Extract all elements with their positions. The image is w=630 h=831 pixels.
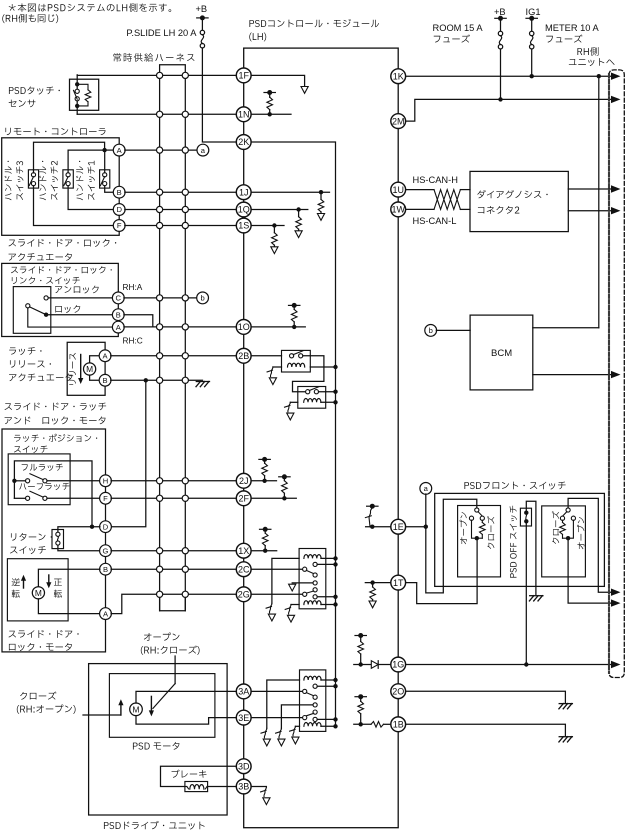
svg-text:IG1: IG1 (526, 7, 541, 17)
wire half latch to F (47, 497, 100, 499)
ground latch release (196, 381, 209, 383)
terminal A latch release (99, 350, 111, 362)
wire brake to 3B (208, 786, 237, 788)
wire B to ground (111, 379, 203, 381)
label slide door latch and lock motor (5, 403, 107, 411)
wire 1T stub (365, 582, 391, 584)
svg-text:1O: 1O (238, 322, 250, 332)
motor M PSD (130, 703, 143, 716)
RH switch contacts (560, 516, 564, 520)
harness bracket top (160, 65, 186, 76)
label slide door lock actuator (9, 239, 117, 247)
wire A to 1O (124, 326, 236, 328)
wire IG1 down to 1K wire (531, 49, 533, 76)
LH front switch box (458, 506, 501, 577)
terminal A remote (113, 144, 125, 156)
svg-text:2C: 2C (238, 564, 250, 574)
svg-text:2G: 2G (238, 590, 250, 600)
wire BCM upper output (533, 327, 599, 329)
sensor riser bottom (76, 106, 78, 114)
wire 1X internal (251, 550, 277, 552)
svg-text:M: M (132, 705, 139, 715)
svg-text:2J: 2J (239, 476, 249, 486)
terminal B link switch (112, 309, 124, 321)
label close (20, 692, 56, 700)
terminal D latch (100, 521, 112, 533)
motor M lock (32, 587, 44, 599)
wire M to 3E (136, 716, 236, 725)
label forward (54, 579, 62, 586)
wire 1B stub with resistor (354, 723, 371, 725)
svg-text:HS-CAN-L: HS-CAN-L (413, 216, 457, 226)
terminal F latch (100, 492, 112, 504)
svg-text:1K: 1K (393, 71, 404, 81)
RH switch junction dot (566, 536, 570, 540)
terminal A link switch (112, 321, 124, 333)
pull-down at 1J (319, 190, 323, 194)
svg-text:G: G (103, 546, 109, 555)
pull-down at 1Q (296, 207, 300, 211)
relay middle contact 3A group (313, 703, 317, 707)
coil lower right lead to rail 3E (321, 725, 336, 727)
relay coil upper 3A (304, 676, 321, 680)
battery switch feed at 1E (367, 505, 378, 507)
relay 2 coil left to switch-ground (290, 401, 298, 403)
connector 1F (236, 68, 251, 83)
relay 2 box (298, 387, 326, 409)
coil upper right lead to rail 3A (321, 679, 336, 681)
relay 2 coil right to rail (321, 401, 336, 403)
relay coil upper 2C (304, 555, 321, 559)
RH switch right branch (568, 520, 573, 538)
battery terminal +B left (197, 17, 208, 19)
wire 1S internal (251, 225, 284, 227)
close wire into unit (83, 714, 121, 716)
label open RH vertical (577, 517, 584, 549)
label brake (172, 770, 207, 778)
return switch (52, 530, 64, 549)
svg-text:2K: 2K (238, 137, 249, 147)
label close RH vertical (552, 511, 559, 544)
svg-text:F: F (117, 221, 122, 230)
open selector line (174, 656, 176, 684)
svg-text:B: B (117, 188, 122, 197)
full latch switch (26, 479, 30, 483)
wire 2G to relay common (251, 593, 303, 595)
relay 2 contact right to rail (319, 391, 336, 393)
remote controller box (2, 138, 120, 236)
relay 2 coil (304, 399, 321, 403)
junction dot latch ground wire (144, 378, 148, 382)
connector 1T (391, 575, 406, 590)
wire CAN-H to diag connector (460, 189, 470, 191)
wire +B down to 2M wire (500, 49, 502, 99)
open down arrow (150, 696, 152, 712)
wire 1K to RH (406, 75, 612, 77)
label full latch (22, 464, 63, 471)
label RH side unit (577, 47, 598, 56)
wire 1Q internal (251, 209, 308, 211)
wire switch1 bottom to B (105, 186, 114, 193)
svg-text:RH:C: RH:C (123, 336, 143, 346)
harness crossing circles 1F wire (157, 72, 163, 78)
wire M to A terminal (38, 599, 100, 614)
ground 1B (559, 736, 572, 738)
RH front switch box (542, 506, 586, 577)
svg-text:ROOM 15 A: ROOM 15 A (433, 23, 484, 33)
coil upper left lead to switch-ground (272, 558, 299, 603)
wire switch3 bottom to F (34, 186, 114, 226)
latch position switch box (8, 454, 70, 505)
front switch outer box (435, 493, 605, 586)
release label vertical (69, 353, 76, 385)
connector 2M (391, 114, 406, 129)
harness crossing circles 1N wire (157, 111, 163, 117)
wire full latch to H (47, 480, 100, 482)
fuse ROOM 15A (500, 18, 502, 31)
coil lower right lead to rail (321, 604, 336, 606)
svg-text:B: B (103, 376, 108, 385)
svg-text:2M: 2M (392, 116, 405, 126)
junction dot remote A (102, 148, 106, 152)
wire D to 1Q (125, 209, 237, 211)
handle switch 3 label (5, 161, 12, 200)
label link switch (11, 266, 112, 274)
label PSD front switch (464, 482, 565, 490)
wire 2C to relay common (251, 568, 303, 570)
relay 2 contacts (306, 390, 310, 394)
wire 3D brake loop (161, 766, 237, 786)
label lock (55, 305, 80, 313)
close up arrow (120, 703, 122, 715)
wire switch3 top loop (34, 142, 105, 172)
sensor internal resistor (77, 84, 88, 90)
wire 2K internal rail (251, 142, 335, 726)
PSD OFF switch box (520, 508, 531, 526)
wire 2F internal (251, 497, 296, 499)
wire 1E to front switch (406, 526, 426, 528)
coil upper left lead switch-ground 3A (267, 680, 300, 728)
link switch blade (30, 307, 46, 315)
pull-down at 1S (272, 223, 276, 227)
svg-text:3B: 3B (238, 782, 249, 792)
pull-down at 1T (370, 580, 374, 584)
connector 1K (391, 69, 406, 84)
node b (left) (197, 292, 209, 304)
label open (144, 633, 180, 641)
svg-text:3E: 3E (238, 713, 249, 723)
svg-text:b: b (200, 294, 204, 303)
terminal B remote (113, 186, 125, 198)
motor M latch release (84, 363, 96, 375)
wire a down to 1E wire (425, 494, 427, 527)
svg-text:D: D (103, 522, 109, 531)
RH switch output arrow (568, 538, 611, 603)
wire dot to A (105, 149, 114, 151)
relay 1 contacts (290, 354, 294, 358)
relay NC contact lower to rail 3E (313, 717, 317, 721)
connector 3D (236, 759, 251, 774)
svg-text:METER 10 A: METER 10 A (545, 23, 600, 33)
svg-text:B: B (116, 310, 121, 319)
wire switch2 bottom to D (68, 186, 113, 210)
diag out upper (568, 188, 611, 190)
lock motor box (7, 559, 68, 621)
label diagnosis connector (477, 190, 547, 198)
label latch position switch (14, 434, 97, 442)
svg-text:HS-CAN-H: HS-CAN-H (413, 175, 458, 185)
connector 2C (236, 562, 251, 577)
relay NC contact lower to rail (313, 595, 317, 599)
wire 1W CAN-L (406, 208, 434, 210)
connector 1G (391, 657, 406, 672)
relay changeover 2 3E (313, 710, 317, 714)
connector 1E (391, 519, 406, 534)
connector 2F (236, 491, 251, 506)
PSD touch sensor box (70, 79, 99, 110)
relay NO contact upper (313, 562, 317, 566)
PSD control module box (244, 48, 399, 828)
wire M to A (90, 356, 100, 363)
connector 3E (236, 710, 251, 725)
svg-text:2B: 2B (238, 351, 249, 361)
svg-text:B: B (103, 565, 108, 574)
connector 3B (236, 779, 251, 794)
wire B to 1J (125, 191, 237, 193)
svg-text:1J: 1J (239, 187, 249, 197)
wire M to B (90, 375, 100, 380)
pull-up at 1X (263, 549, 267, 553)
svg-text:2F: 2F (238, 494, 249, 504)
label close LH vertical (487, 516, 494, 549)
latch release actuator box (67, 342, 105, 395)
terminal G latch (100, 545, 112, 557)
wire F to 1S (125, 225, 237, 227)
svg-text:RH:A: RH:A (123, 282, 143, 292)
reverse up arrow (23, 579, 25, 588)
wire D to return switch (58, 527, 100, 532)
wire 2M to RH (406, 99, 612, 121)
wire F to 2F (111, 497, 236, 499)
wire unlock contact to C (48, 297, 112, 299)
wire B drop to 1O wire (124, 315, 153, 327)
latch and lock motor box (2, 429, 106, 652)
latch common over-route (14, 461, 92, 527)
wire M to 3A (136, 691, 236, 703)
relay 1 coil right to rail (310, 366, 335, 368)
svg-text:C: C (116, 294, 122, 303)
wire B to 2C (111, 568, 236, 570)
label remote controller (5, 128, 105, 136)
label open LH vertical (460, 512, 467, 544)
node a (right) (420, 483, 432, 495)
svg-text:b: b (429, 326, 433, 335)
RH switch common (566, 508, 570, 512)
terminal F remote (113, 220, 125, 232)
svg-text:+B: +B (494, 7, 506, 17)
connector 3A (236, 684, 251, 699)
brake coil box (185, 782, 208, 792)
handle switch 3 (28, 170, 38, 188)
slide door lock actuator box (2, 263, 119, 336)
link switch common wire (28, 308, 113, 327)
svg-text:P.SLIDE LH 20 A: P.SLIDE LH 20 A (126, 28, 197, 38)
coil lower left lead switch-ground 3E (295, 725, 299, 727)
svg-text:1G: 1G (392, 660, 404, 670)
relay NO contact upper 3A (313, 684, 317, 688)
relay box 2C 2G (299, 549, 326, 609)
svg-text:1N: 1N (238, 110, 250, 120)
wire 3A to relay common (251, 690, 303, 692)
LH switch left branch (472, 520, 477, 538)
PSD OFF switch label (510, 506, 517, 578)
harness line 2 (184, 75, 186, 610)
connector 2G (236, 587, 251, 602)
svg-text:3D: 3D (238, 761, 250, 771)
connector 2J (236, 473, 251, 488)
link switch contacts (44, 296, 48, 300)
node b (right) (425, 325, 437, 337)
terminal C link switch (112, 292, 124, 304)
label PSD drive unit (104, 821, 205, 830)
svg-text:1F: 1F (238, 71, 249, 81)
wire 2O to ground (406, 691, 566, 702)
brake coil (190, 785, 204, 790)
relay changeover 1 (303, 567, 307, 571)
RH common to RH unit arrow (568, 498, 611, 592)
node a (left) (197, 144, 209, 156)
svg-text:BCM: BCM (491, 348, 512, 359)
diode at 1G (371, 661, 378, 669)
diagnosis connector 2 box (470, 171, 568, 231)
label return switch (11, 533, 52, 541)
RH switch resistor (562, 520, 564, 522)
svg-text:1B: 1B (393, 720, 404, 730)
svg-text:M: M (86, 364, 93, 374)
svg-text:1S: 1S (238, 221, 249, 231)
wire sensor to 1N (77, 113, 236, 115)
connector 1S (236, 218, 251, 233)
connector 1J (236, 185, 251, 200)
wire A riser to 2G (111, 594, 236, 613)
pull-up at 2J (262, 479, 266, 483)
svg-text:1T: 1T (393, 578, 404, 588)
handle switch 2 label (39, 161, 46, 200)
coil lower left lead to switch-ground (291, 604, 299, 606)
wire 1B to ground (406, 724, 566, 735)
handle switch 2 (63, 170, 73, 188)
terminal H latch (100, 475, 112, 487)
diag out lower (568, 210, 611, 212)
ground front switch (530, 595, 543, 597)
harness bracket bottom (160, 594, 186, 610)
svg-text:1X: 1X (238, 546, 249, 556)
fuse P.SLIDE LH 20 A (201, 18, 203, 30)
wire G to 1X (111, 550, 236, 552)
wire 1N internal (251, 113, 291, 115)
note text top-left (9, 3, 172, 12)
wire switch1 top (104, 150, 106, 173)
LH switch common (475, 508, 479, 512)
connector 2K (236, 135, 251, 150)
connector 2O (391, 684, 406, 699)
svg-text:M: M (35, 588, 42, 598)
release direction arrow (80, 355, 82, 381)
fuse METER 10A (531, 18, 533, 31)
svg-text:D: D (116, 205, 122, 214)
PSD OFF contacts (524, 511, 528, 515)
BCM box (470, 315, 533, 390)
wire lock to B (46, 314, 113, 316)
latch common vertical (13, 481, 15, 499)
svg-text:1U: 1U (392, 185, 404, 195)
pull-up at 2F (282, 496, 286, 500)
label 常時供給ハーネス (113, 53, 194, 62)
wire A to 2B (111, 355, 237, 357)
dashed RH unit box (609, 70, 624, 678)
relay 1 coil left to switch-ground (273, 366, 282, 368)
sensor internal switch (75, 82, 79, 86)
open arrow below 1F wire (301, 87, 308, 94)
pull-up at 1B (359, 722, 363, 726)
svg-text:F: F (103, 494, 108, 503)
label latch release actuator (9, 347, 41, 355)
label slide door lock motor (9, 630, 79, 638)
svg-text:1Q: 1Q (238, 205, 250, 215)
relay coil lower 2G (304, 601, 321, 605)
forward down arrow (48, 575, 50, 584)
terminal A latch motor (100, 608, 112, 620)
wire 1O internal (251, 326, 305, 328)
front switch feed route (426, 499, 477, 593)
wire b to BCM (436, 329, 470, 331)
PSD drive unit box (89, 664, 228, 815)
pull-up at 1G (359, 662, 363, 666)
connector 1W (391, 202, 406, 217)
ground 2O (559, 703, 572, 705)
svg-text:3A: 3A (238, 687, 249, 697)
wire 3E to relay common (251, 717, 303, 719)
sensor riser top (76, 75, 78, 85)
wire B into motor (38, 569, 100, 587)
connector 1Q (236, 202, 251, 217)
LH switch resistor (481, 520, 483, 522)
wire 1G stub with diode (354, 664, 391, 666)
wire 1U CAN-H (406, 189, 434, 191)
pull-up at 1N (268, 112, 272, 116)
svg-text:2O: 2O (392, 686, 404, 696)
relay middle contact to arrow (313, 581, 317, 585)
wire H to 2J (111, 480, 236, 482)
relay 1 box (282, 350, 311, 372)
pull-up at 1O (292, 325, 296, 329)
wire switch2 top loop (68, 150, 105, 173)
label PSD motor (133, 742, 180, 750)
wire BCM lower output to RH (533, 374, 612, 376)
wire return switch to G (58, 545, 100, 551)
wire 1T to LH switch (406, 540, 478, 603)
link switch box (13, 287, 51, 334)
terminal B latch release (99, 374, 111, 386)
wire +B feed down to 2K (202, 48, 236, 142)
label PSD touch sensor (9, 86, 60, 94)
label reverse (12, 578, 20, 586)
relay changeover 2 (313, 588, 317, 592)
PSD OFF bottom to 1G wire (525, 521, 527, 664)
harness line 1 (159, 75, 161, 610)
selector blade (153, 684, 175, 709)
wire 2J internal (251, 480, 276, 482)
